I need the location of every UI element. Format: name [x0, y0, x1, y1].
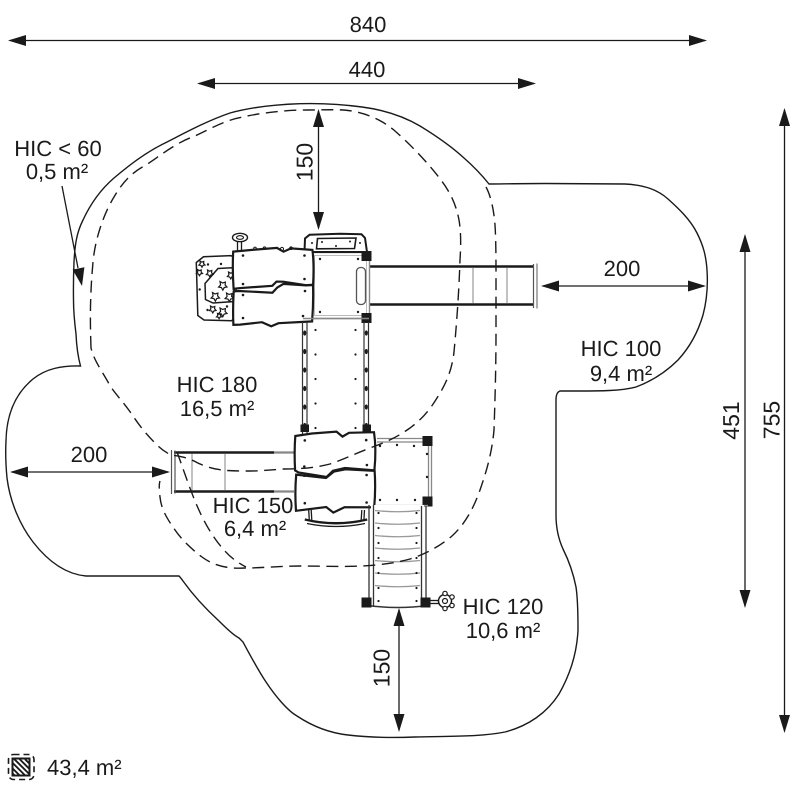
stairs — [362, 505, 431, 608]
svg-text:10,6 m²: 10,6 m² — [466, 618, 541, 643]
lower roof panel 4 — [295, 469, 375, 512]
slide bracket at platform right — [357, 268, 366, 305]
dimension 840 — [8, 12, 707, 46]
dimension 755 — [759, 108, 791, 733]
corridor (bridge) rails — [301, 319, 372, 435]
svg-text:840: 840 — [350, 12, 387, 37]
solid safety zone outline (cloud) — [6, 104, 708, 738]
lower platform — [375, 436, 433, 507]
label HIC < 60 with leader arrow — [14, 136, 101, 286]
right slide (long) — [367, 264, 537, 309]
svg-text:43,4 m²: 43,4 m² — [47, 755, 122, 780]
top entry box — [305, 234, 368, 252]
svg-text:HIC < 60: HIC < 60 — [14, 136, 101, 161]
periscope — [233, 233, 248, 253]
dimension 150 top — [292, 109, 325, 230]
upper roof panel 2 — [233, 284, 313, 326]
hanging bar below lower roof — [305, 510, 367, 527]
dimension 200 left — [10, 442, 170, 478]
svg-text:16,5 m²: 16,5 m² — [180, 396, 255, 421]
svg-text:150: 150 — [292, 143, 318, 181]
steering wheel — [428, 591, 454, 610]
dashed free-space outline upper (closed) — [90, 110, 460, 471]
left slide — [172, 450, 298, 494]
svg-text:HIC 180: HIC 180 — [177, 372, 258, 397]
climbing panel with holds — [196, 256, 236, 321]
dimension 150 bottom — [369, 608, 405, 732]
dimension 200 right — [541, 256, 706, 292]
svg-text:200: 200 — [604, 256, 641, 281]
svg-text:451: 451 — [718, 401, 744, 439]
svg-text:200: 200 — [71, 442, 108, 467]
lower platform bottom edge — [376, 505, 428, 507]
upper roof panel 1 — [233, 247, 314, 289]
svg-text:0,5 m²: 0,5 m² — [26, 159, 88, 184]
svg-text:HIC 150: HIC 150 — [213, 493, 294, 518]
upper platform — [312, 251, 372, 323]
dimension 451 — [718, 234, 751, 608]
svg-text:9,4 m²: 9,4 m² — [590, 361, 652, 386]
svg-text:150: 150 — [369, 649, 395, 687]
svg-text:HIC 100: HIC 100 — [581, 336, 662, 361]
svg-text:755: 755 — [759, 401, 785, 439]
svg-text:440: 440 — [349, 57, 386, 82]
legend: hatched square + area — [9, 755, 122, 781]
lower roof panel 3 — [295, 432, 376, 477]
dashed free-space outline lower (open branch) — [159, 187, 496, 568]
dashed arc through left slide end — [177, 452, 246, 567]
svg-text:HIC 120: HIC 120 — [463, 594, 544, 619]
svg-text:6,4 m²: 6,4 m² — [224, 516, 286, 541]
dimension 440 — [197, 57, 536, 89]
